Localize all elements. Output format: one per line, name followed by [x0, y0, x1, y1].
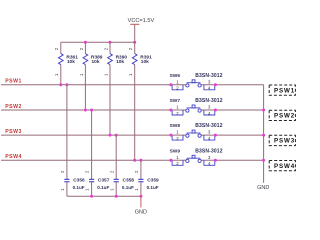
junction dot rail GND drop: [139, 195, 142, 198]
svg-text:2: 2: [60, 170, 65, 173]
svg-text:VCC=1.5V: VCC=1.5V: [128, 18, 155, 24]
svg-text:1: 1: [79, 73, 84, 76]
svg-text:3: 3: [208, 130, 211, 135]
svg-text:1: 1: [176, 155, 179, 160]
svg-text:GND: GND: [135, 210, 147, 216]
off-page connector PSW1: [269, 85, 295, 95]
junction dot PSW1/C356: [65, 83, 68, 86]
svg-text:PSW3: PSW3: [5, 129, 22, 135]
junction dot SW7 right: [214, 109, 217, 112]
svg-text:C357: C357: [98, 177, 110, 183]
svg-text:0.1uF: 0.1uF: [97, 185, 109, 190]
junction dot SW9 left: [169, 159, 172, 162]
svg-text:SW6: SW6: [170, 73, 181, 79]
wire: GND bus vertical right: [263, 85, 265, 183]
ground symbol center GND: [135, 196, 147, 215]
svg-text:B3SN-3012: B3SN-3012: [195, 123, 223, 129]
junction dot PSW4/R391: [133, 159, 136, 162]
wire: PSW1 row right segment: [201, 84, 263, 86]
svg-text:10k: 10k: [116, 59, 124, 65]
wire: PSW3 row right segment: [201, 134, 263, 136]
svg-text:PSW2: PSW2: [5, 104, 22, 110]
svg-text:B3SN-3012: B3SN-3012: [195, 148, 223, 154]
power symbol VCC=1.5V: [128, 18, 155, 43]
switch SW7: [170, 98, 223, 116]
svg-text:10k: 10k: [67, 59, 75, 65]
junction dot bus row2: [262, 109, 265, 112]
wire: PSW3 row left segment: [1, 134, 186, 136]
svg-text:1: 1: [128, 73, 133, 76]
wire: PSW4 row left segment: [1, 159, 186, 161]
resistor R390: [103, 42, 127, 135]
svg-text:PSW3: PSW3: [274, 138, 295, 145]
svg-text:1: 1: [176, 79, 179, 84]
svg-text:1: 1: [109, 188, 114, 191]
off-page connector PSW4: [269, 161, 295, 171]
switch SW8: [170, 123, 223, 141]
svg-text:3: 3: [208, 105, 211, 110]
junction dot PSW4/C359: [139, 159, 142, 162]
svg-text:PSW4: PSW4: [5, 154, 22, 160]
svg-text:0.1uF: 0.1uF: [122, 185, 134, 190]
svg-text:2: 2: [134, 170, 139, 173]
junction dot PSW1/R361: [59, 83, 62, 86]
junction dot PSW3/C358: [115, 134, 118, 137]
wire: GND bottom rail: [67, 195, 141, 197]
svg-text:0.1uF: 0.1uF: [73, 185, 85, 190]
capacitor C359: [134, 160, 159, 196]
junction dot PSW2/C357: [90, 109, 93, 112]
off-page connector PSW2: [269, 110, 295, 120]
svg-text:2: 2: [79, 47, 84, 50]
junction dot PSW2/R389: [84, 109, 87, 112]
capacitor C357: [85, 110, 110, 196]
svg-text:1: 1: [54, 73, 59, 76]
svg-text:1: 1: [103, 73, 108, 76]
svg-text:2: 2: [128, 47, 133, 50]
capacitor C358: [109, 135, 134, 196]
svg-text:3: 3: [208, 79, 211, 84]
svg-text:3: 3: [208, 155, 211, 160]
resistor R389: [79, 42, 103, 110]
svg-text:B3SN-3012: B3SN-3012: [195, 73, 223, 79]
wire: PSW2 row right segment: [201, 109, 263, 111]
junction dot bus row3: [262, 134, 265, 137]
svg-text:0.1uF: 0.1uF: [147, 185, 159, 190]
svg-text:1: 1: [85, 188, 90, 191]
junction dot SW9 right: [214, 159, 217, 162]
junction dot bus row4: [262, 159, 265, 162]
svg-text:1: 1: [60, 188, 65, 191]
junction dot top rail at R391/VCC: [133, 41, 136, 44]
svg-text:2: 2: [54, 47, 59, 50]
svg-text:SW9: SW9: [170, 148, 181, 154]
svg-text:1: 1: [176, 130, 179, 135]
svg-text:PSW2: PSW2: [274, 113, 295, 120]
svg-text:PSW1: PSW1: [274, 87, 295, 94]
junction dot top rail at R390: [109, 41, 112, 44]
junction dot rail C357: [90, 195, 93, 198]
capacitor C356: [60, 85, 85, 196]
resistor R361: [54, 42, 78, 85]
junction dot SW8 left: [169, 134, 172, 137]
svg-text:2: 2: [109, 170, 114, 173]
wire: PSW2 row left segment: [1, 109, 186, 111]
svg-text:2: 2: [85, 170, 90, 173]
switch SW9: [170, 148, 223, 166]
junction dot PSW3/R390: [109, 134, 112, 137]
svg-text:2: 2: [103, 47, 108, 50]
svg-text:C356: C356: [73, 177, 85, 183]
junction dot SW7 left: [169, 109, 172, 112]
junction dot SW8 right: [214, 134, 217, 137]
resistor R391: [128, 42, 152, 160]
off-page connector PSW3: [269, 135, 295, 145]
svg-text:1: 1: [176, 105, 179, 110]
svg-text:C359: C359: [147, 177, 159, 183]
svg-text:SW7: SW7: [170, 98, 181, 104]
svg-text:10k: 10k: [141, 59, 149, 65]
junction dot SW6 right: [214, 83, 217, 86]
wire: PSW1 row left segment: [1, 84, 186, 86]
svg-text:SW8: SW8: [170, 123, 181, 129]
svg-text:1: 1: [134, 188, 139, 191]
junction dot top rail at R389: [84, 41, 87, 44]
junction dot SW6 left: [169, 83, 172, 86]
svg-text:GND: GND: [257, 185, 269, 191]
wire: VCC top rail: [61, 41, 135, 43]
switch SW6: [170, 73, 223, 91]
junction dot rail C358: [115, 195, 118, 198]
svg-text:PSW1: PSW1: [5, 79, 22, 85]
svg-text:B3SN-3012: B3SN-3012: [195, 98, 223, 104]
wire: PSW4 row right segment: [201, 159, 263, 161]
svg-text:10k: 10k: [92, 59, 100, 65]
svg-text:C358: C358: [123, 177, 135, 183]
svg-text:PSW4: PSW4: [274, 163, 295, 170]
